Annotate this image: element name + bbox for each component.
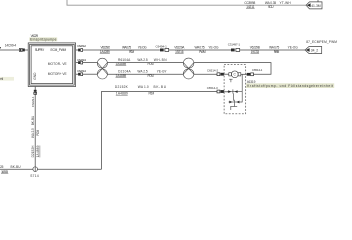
wire row2 loop over unit	[194, 63, 271, 75]
link sender1 to sender2	[233, 93, 235, 100]
svg-text:1A4889: 1A4889	[116, 92, 128, 96]
wire row3 between twists	[107, 73, 183, 75]
svg-text:PCM: PCM	[149, 91, 155, 95]
svg-text:C6229-1: C6229-1	[31, 96, 35, 107]
connector tag 34_2	[305, 47, 322, 54]
fuel pump motor	[229, 71, 241, 78]
wire row2 between twists	[107, 62, 183, 64]
svg-text:C6514-1: C6514-1	[252, 68, 263, 72]
labels V6229/2 WA 0.75 YE-OG / 1A4289 PCM	[100, 46, 147, 54]
svg-text:GND: GND	[33, 72, 37, 80]
wire stub unit right	[245, 73, 248, 75]
svg-text:PWM: PWM	[274, 50, 280, 54]
connector C6514 row4	[217, 90, 224, 93]
wire GND vertical	[34, 87, 36, 172]
wire supply feed	[0, 49, 28, 51]
svg-text:C6514-3: C6514-3	[207, 86, 218, 90]
svg-text:SCU: SCU	[268, 5, 274, 9]
underline 14211	[246, 8, 255, 10]
svg-text:C6514-2: C6514-2	[207, 69, 219, 73]
pin stub MOTOR+VE row3	[76, 73, 79, 75]
level sender element 2	[229, 100, 241, 104]
splice S714	[33, 167, 38, 172]
svg-text:D2152K: D2152K	[115, 85, 129, 89]
inline connector C6494	[160, 49, 169, 52]
svg-text:S714: S714	[30, 174, 39, 178]
component box V6229 Einspritzpumpe (triple border)	[28, 43, 75, 87]
svg-text:YE-OG: YE-OG	[208, 46, 219, 50]
pin stub MOTOR-VE row2	[76, 62, 79, 64]
wire motor to box right	[241, 73, 246, 75]
svg-text:MOTOR+ VE: MOTOR+ VE	[48, 72, 67, 76]
underline 1A4889 row4	[116, 94, 128, 96]
svg-text:Einspritzpumpe: Einspritzpumpe	[30, 38, 57, 42]
svg-text:YE-OG: YE-OG	[138, 46, 147, 50]
svg-text:WA 2.5: WA 2.5	[137, 58, 148, 62]
connector C6229-4	[78, 73, 83, 76]
underline 19216	[175, 53, 184, 55]
highlight Einspritzpumpe	[29, 37, 57, 41]
svg-text:19C33: 19C33	[251, 50, 260, 54]
wire grey bus top	[67, 0, 306, 5]
svg-text:D2152H: D2152H	[31, 145, 35, 158]
sender2 bottom stub	[233, 104, 235, 107]
svg-text:ECM_PWM: ECM_PWM	[51, 48, 67, 52]
svg-text:2.5: 2.5	[0, 165, 4, 169]
labels V6229B WA 0.75 YE-OG / 19C33 PWM	[250, 46, 298, 54]
svg-text:WH-BN: WH-BN	[154, 58, 167, 62]
svg-text:SUPPLY: SUPPLY	[35, 48, 45, 52]
svg-text:BK-BU: BK-BU	[11, 165, 22, 169]
svg-text:erti: erti	[0, 77, 4, 81]
svg-text:WA 2.5: WA 2.5	[31, 128, 35, 138]
wire row3 to unit	[194, 73, 217, 75]
pin stub ECM_PWM row1	[76, 49, 79, 51]
wire stub into unit row4	[224, 91, 231, 93]
level sender element 1	[227, 89, 238, 93]
svg-text:1A4889: 1A4889	[116, 74, 127, 78]
svg-text:PCM: PCM	[129, 50, 134, 54]
svg-text:BK-BU: BK-BU	[31, 115, 35, 125]
twisted pair symbol 2	[183, 58, 194, 79]
stub sender1 to bus	[238, 91, 242, 93]
svg-text:1A4889: 1A4889	[116, 62, 127, 66]
svg-text:C6229-3: C6229-3	[77, 58, 86, 62]
underline 16505	[1, 173, 8, 175]
highlight Kraftstoffpump- und Fuellstandsgebereinheit	[246, 83, 334, 88]
twisted pair symbol 1	[97, 58, 107, 79]
wire stub into unit left	[224, 73, 229, 75]
svg-text:YT-WH: YT-WH	[280, 1, 292, 5]
labels R6104A WA 2.5 WH-BN / 1A4889 PCM	[116, 58, 168, 66]
svg-text:C6229-2: C6229-2	[77, 44, 86, 48]
underline 1A4889 vertical	[39, 146, 41, 158]
underline 1A4889 row2	[116, 65, 127, 67]
wire row1 segment 2	[169, 49, 231, 51]
svg-text:PWM: PWM	[199, 50, 206, 54]
svg-text:1A4889: 1A4889	[36, 145, 40, 157]
svg-text:C6494-1: C6494-1	[156, 44, 168, 48]
svg-text:YE-GY: YE-GY	[157, 70, 168, 74]
labels 2.5 BK-BU / 16505	[0, 165, 21, 174]
wire row4 D2152K	[102, 92, 218, 170]
svg-text:WA 2.5: WA 2.5	[137, 70, 148, 74]
svg-text:C6229-4: C6229-4	[77, 69, 86, 73]
svg-text:14211: 14211	[246, 5, 254, 9]
labels D2152K WA 1.0 BK-BU / 1A4889 PCM	[115, 85, 167, 95]
wire row3 to twist1	[83, 73, 98, 75]
svg-text:16505: 16505	[1, 170, 8, 174]
svg-text:C: C	[234, 73, 237, 77]
splice crossing line	[34, 167, 36, 172]
svg-text:MOTOR- VE: MOTOR- VE	[48, 62, 67, 66]
svg-text:C31497-1: C31497-1	[228, 43, 241, 47]
underline 1A4289	[100, 53, 110, 55]
internal bus to motor negative	[240, 74, 242, 102]
svg-text:Kraftstoffpump- und Füllstands: Kraftstoffpump- und Füllstandsgebereinhe…	[247, 84, 333, 88]
svg-text:PCM: PCM	[148, 62, 154, 66]
svg-text:1A4289: 1A4289	[100, 50, 110, 54]
labels D2104A WA 2.5 YE-GY / 1A4889 PCM	[116, 70, 168, 78]
connector tag 41-3M	[306, 0, 322, 9]
edge fragment	[0, 47, 1, 48]
sender wiper arrow	[229, 79, 232, 82]
connector C6514 left	[217, 73, 224, 76]
svg-text:19216: 19216	[175, 50, 184, 54]
inline connector C31497	[231, 49, 240, 52]
wire row1 segment 1	[83, 49, 160, 51]
svg-text:YE-OG: YE-OG	[288, 46, 299, 50]
underline 1A4889 row3	[116, 77, 127, 79]
wire row2 to twist1	[83, 62, 98, 64]
dashed unit box 46319	[224, 65, 246, 114]
svg-text:WA 1.0: WA 1.0	[138, 85, 149, 89]
connector C6229-2	[78, 49, 83, 52]
labels V6229A WA 0.75 YE-OG / 19216 PWM	[174, 46, 219, 54]
ground bus wire	[0, 168, 102, 170]
edge label fragment (clipped highlight)	[0, 77, 14, 81]
svg-text:34_2: 34_2	[311, 49, 319, 53]
wire label CC8998 / 14211 SCU	[244, 1, 291, 9]
connector C6229-1 (vertical)	[34, 90, 37, 95]
underline 19C33	[251, 53, 260, 55]
connector C on supply wire	[19, 49, 24, 52]
svg-text:14C99-4: 14C99-4	[5, 43, 17, 47]
connector C6229-3	[78, 61, 83, 64]
svg-text:PCM: PCM	[36, 129, 40, 135]
svg-text:41-3M: 41-3M	[311, 4, 321, 8]
svg-text:PCM: PCM	[148, 74, 154, 78]
wire row1 segment 3	[240, 49, 305, 51]
svg-text:BK-BU: BK-BU	[154, 85, 167, 89]
svg-text:87_ECMPEM_PWM: 87_ECMPEM_PWM	[306, 40, 337, 44]
connector C6514 right	[247, 73, 254, 76]
